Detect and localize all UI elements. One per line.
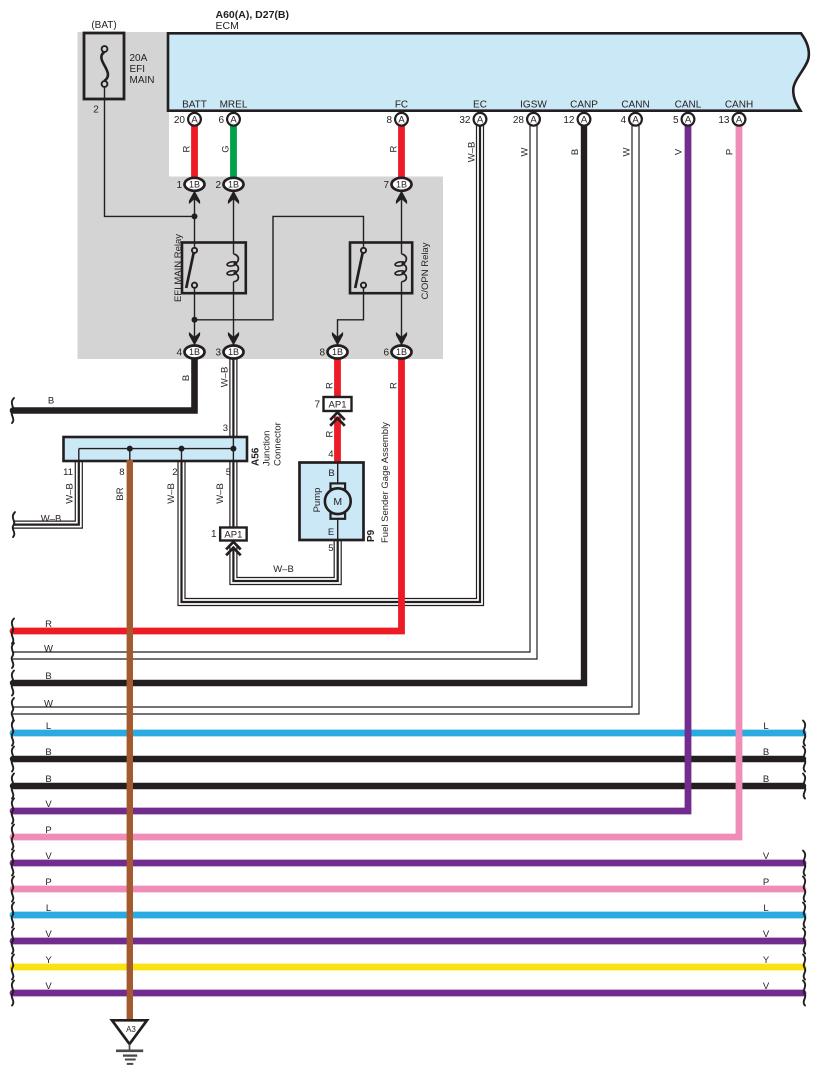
svg-text:V: V xyxy=(45,851,52,862)
torn end V row left xyxy=(12,981,14,1006)
svg-text:Pump: Pump xyxy=(312,488,323,513)
svg-text:A56: A56 xyxy=(251,447,262,466)
torn end P row right xyxy=(803,877,805,902)
svg-text:Fuel Sender Gage Assembly: Fuel Sender Gage Assembly xyxy=(380,422,391,543)
svg-text:A: A xyxy=(530,115,537,126)
svg-text:L: L xyxy=(46,721,51,732)
torn end B row right xyxy=(803,774,805,799)
node junction pin 8 xyxy=(127,446,133,452)
fuse element xyxy=(102,46,108,52)
svg-text:B: B xyxy=(48,396,54,407)
fuel pump P9 box xyxy=(300,463,364,541)
svg-text:B: B xyxy=(45,747,51,758)
torn end B row left xyxy=(12,671,14,696)
svg-text:R: R xyxy=(325,430,336,437)
connector 1B pin 6 bottom xyxy=(396,332,407,346)
svg-text:P: P xyxy=(45,825,51,836)
svg-text:11: 11 xyxy=(63,467,73,478)
svg-text:V: V xyxy=(763,929,770,940)
svg-text:A: A xyxy=(632,115,639,126)
svg-text:W: W xyxy=(520,147,531,156)
svg-text:FC: FC xyxy=(395,100,408,111)
svg-text:1B: 1B xyxy=(396,347,407,357)
svg-text:C/OPN Relay: C/OPN Relay xyxy=(420,242,431,299)
svg-text:A: A xyxy=(230,115,237,126)
connector 1B pin 1 top xyxy=(185,178,205,191)
wire MREL column through EFI relay coil xyxy=(233,199,235,254)
svg-text:AP1: AP1 xyxy=(224,530,242,541)
svg-text:A: A xyxy=(581,115,588,126)
svg-text:W–B: W–B xyxy=(273,564,294,575)
svg-text:A: A xyxy=(736,115,743,126)
wire R from AP1 7 to fuel pump pin 4 xyxy=(334,417,341,463)
wire W from ECM IGSW to left xyxy=(13,126,534,656)
connector 1B pin 4 bottom xyxy=(189,332,200,346)
svg-text:W–B: W–B xyxy=(215,483,226,504)
torn end L row left xyxy=(12,721,14,746)
relay block background xyxy=(78,32,444,359)
svg-text:2: 2 xyxy=(93,105,99,116)
svg-text:5: 5 xyxy=(328,543,333,554)
wire V row 3 xyxy=(13,938,803,945)
svg-text:EC: EC xyxy=(473,100,487,111)
svg-text:B: B xyxy=(763,774,769,785)
wire W-B junction pin 11 to left xyxy=(13,460,79,525)
wire R from 8 1B to AP1 connector 7 xyxy=(334,358,341,399)
svg-text:R: R xyxy=(45,619,52,630)
svg-text:W–B: W–B xyxy=(467,142,478,163)
wire B row 2 xyxy=(13,756,803,762)
svg-text:B: B xyxy=(763,747,769,758)
svg-text:W: W xyxy=(44,699,53,710)
wire C/OPN relay switch to 8 1B xyxy=(338,288,364,346)
wire B from 4 1B to left xyxy=(13,358,195,411)
svg-text:2: 2 xyxy=(172,467,177,478)
C/OPN relay coil xyxy=(402,254,407,263)
wire fuse to BATT node xyxy=(105,86,195,216)
svg-text:1B: 1B xyxy=(332,347,343,357)
svg-text:P9: P9 xyxy=(366,529,377,542)
svg-text:4: 4 xyxy=(620,115,626,126)
svg-text:R: R xyxy=(182,145,193,152)
wire L row xyxy=(13,730,803,737)
svg-text:4: 4 xyxy=(176,348,182,359)
svg-text:W–B: W–B xyxy=(220,367,231,388)
connector AP1 pin 7 xyxy=(324,397,352,411)
wire R from 6 1B to left row xyxy=(13,358,402,631)
wire B row 3 xyxy=(13,783,803,789)
svg-text:B: B xyxy=(45,671,51,682)
torn end B wire left xyxy=(12,398,14,423)
svg-text:AP1: AP1 xyxy=(329,400,347,411)
svg-text:3: 3 xyxy=(223,423,228,434)
wire W-B junction pin 2 to ECM EC xyxy=(182,126,481,602)
svg-text:8: 8 xyxy=(119,467,124,478)
torn end P row left xyxy=(12,825,14,850)
torn end V row left xyxy=(12,851,14,876)
svg-text:P: P xyxy=(763,877,769,888)
torn end R row left xyxy=(12,619,14,644)
svg-text:13: 13 xyxy=(718,115,730,126)
node BATT wire to relay xyxy=(192,213,198,219)
motor M of fuel pump xyxy=(331,483,346,489)
wire Y row xyxy=(13,964,803,971)
wire W-B from 3 1B to junction A56 pin 3 xyxy=(229,358,237,438)
wire FC column through C/OPN relay coil xyxy=(401,199,403,254)
wire V row 4 xyxy=(13,990,803,997)
svg-text:3: 3 xyxy=(215,348,221,359)
svg-text:CANH: CANH xyxy=(725,100,753,111)
svg-text:M: M xyxy=(333,496,342,508)
torn end L row right xyxy=(803,903,805,928)
svg-text:V: V xyxy=(45,799,52,810)
svg-text:A: A xyxy=(398,115,405,126)
svg-text:CANL: CANL xyxy=(675,100,702,111)
connector 1B pin 2 top xyxy=(224,178,244,191)
svg-text:B: B xyxy=(181,375,192,381)
torn end V row right xyxy=(803,929,805,954)
ground A3 xyxy=(112,1020,147,1044)
svg-text:R: R xyxy=(325,382,336,389)
svg-text:1B: 1B xyxy=(228,347,239,357)
svg-text:P: P xyxy=(725,149,736,155)
torn end B row left xyxy=(12,774,14,799)
svg-text:7: 7 xyxy=(314,400,320,411)
wire W from ECM CANN to left xyxy=(13,126,636,711)
connector 1B pin 7 top xyxy=(392,178,412,191)
svg-text:8: 8 xyxy=(386,115,392,126)
ECM A60(A) D27(B) box xyxy=(168,33,809,110)
wire EFI relay output to C/OPN relay switch xyxy=(195,216,364,319)
svg-text:Y: Y xyxy=(45,955,52,966)
node junction pin 2 xyxy=(179,446,185,452)
C/OPN relay switch xyxy=(361,248,366,253)
torn end Y row left xyxy=(12,955,14,980)
wire L row 2 xyxy=(13,912,803,919)
torn end L row right xyxy=(803,721,805,746)
torn end V row left xyxy=(12,929,14,954)
connector 1B pin 8 bottom xyxy=(332,332,343,346)
svg-text:4: 4 xyxy=(328,449,333,460)
svg-text:1: 1 xyxy=(176,180,182,191)
torn end W row left xyxy=(12,698,14,723)
EFI MAIN relay box xyxy=(182,243,246,294)
svg-text:A: A xyxy=(477,115,484,126)
svg-text:EFI: EFI xyxy=(130,64,146,75)
svg-text:B: B xyxy=(570,149,581,155)
svg-text:V: V xyxy=(763,851,770,862)
svg-text:G: G xyxy=(221,145,232,152)
torn end B row right xyxy=(803,747,805,772)
svg-text:L: L xyxy=(763,721,768,732)
svg-text:W: W xyxy=(44,644,53,655)
svg-text:1B: 1B xyxy=(189,180,200,190)
svg-text:(BAT): (BAT) xyxy=(91,20,116,31)
wire V row 2 xyxy=(13,860,803,867)
torn end V row left xyxy=(12,799,14,824)
C/OPN relay box xyxy=(350,243,412,294)
svg-text:V: V xyxy=(763,981,770,992)
svg-text:5: 5 xyxy=(226,467,231,478)
svg-text:1B: 1B xyxy=(228,180,239,190)
svg-text:EFI MAIN Relay: EFI MAIN Relay xyxy=(173,234,184,302)
svg-text:CANN: CANN xyxy=(621,100,649,111)
svg-text:B: B xyxy=(328,468,334,479)
svg-text:V: V xyxy=(674,148,685,155)
EFI relay coil xyxy=(234,254,239,263)
EFI relay switch xyxy=(192,248,197,253)
svg-text:W–B: W–B xyxy=(41,514,62,525)
torn end L row left xyxy=(12,903,14,928)
fuse 20A EFI MAIN xyxy=(84,33,124,99)
svg-text:CANP: CANP xyxy=(570,100,598,111)
torn end V row right xyxy=(803,851,805,876)
svg-text:8: 8 xyxy=(319,348,325,359)
svg-text:B: B xyxy=(45,774,51,785)
svg-text:W–B: W–B xyxy=(166,483,177,504)
torn end B row left xyxy=(12,747,14,772)
svg-text:2: 2 xyxy=(215,180,221,191)
svg-text:6: 6 xyxy=(218,115,224,126)
svg-text:L: L xyxy=(763,903,768,914)
junction connector A56 xyxy=(64,437,248,461)
svg-text:Junction: Junction xyxy=(262,431,273,466)
svg-text:20: 20 xyxy=(174,115,186,126)
connector AP1 pin 1 xyxy=(220,528,247,541)
svg-text:A3: A3 xyxy=(126,1025,136,1034)
torn end Y row right xyxy=(803,955,805,980)
torn end V row right xyxy=(803,981,805,1006)
svg-text:Y: Y xyxy=(763,955,770,966)
svg-text:1B: 1B xyxy=(396,180,407,190)
wire BATT column through EFI relay switch xyxy=(194,199,196,247)
node junction pin 5 xyxy=(230,446,236,452)
svg-text:W: W xyxy=(622,147,633,156)
svg-text:E: E xyxy=(328,527,334,538)
svg-text:IGSW: IGSW xyxy=(520,100,547,111)
svg-text:28: 28 xyxy=(513,115,525,126)
svg-text:7: 7 xyxy=(383,180,389,191)
torn end W row left xyxy=(12,643,14,668)
wire BR from junction pin 8 to ground A3 xyxy=(127,460,133,1020)
wire R ECM BATT xyxy=(191,126,198,178)
svg-text:BR: BR xyxy=(115,487,126,500)
wire W-B AP1 to fuel pump pin 5 xyxy=(233,539,337,581)
wire V from ECM CANL to left row xyxy=(13,126,688,811)
svg-text:5: 5 xyxy=(673,115,679,126)
svg-text:A: A xyxy=(191,115,198,126)
svg-text:1: 1 xyxy=(211,529,217,540)
svg-text:MREL: MREL xyxy=(220,100,248,111)
svg-text:P: P xyxy=(45,877,51,888)
svg-text:1B: 1B xyxy=(189,347,200,357)
svg-text:32: 32 xyxy=(459,115,471,126)
svg-text:R: R xyxy=(389,145,400,152)
svg-text:20A: 20A xyxy=(130,53,148,64)
wire P from ECM CANH to left row xyxy=(13,126,739,837)
svg-text:ECM: ECM xyxy=(216,20,239,32)
svg-text:A: A xyxy=(685,115,692,126)
wire G ECM MREL xyxy=(230,126,237,178)
wire B row from ECM CANP to left xyxy=(13,126,584,683)
svg-text:BATT: BATT xyxy=(182,100,207,111)
node EFI relay output xyxy=(192,317,198,323)
svg-text:R: R xyxy=(389,382,400,389)
svg-text:L: L xyxy=(46,903,51,914)
wire R ECM FC xyxy=(398,126,405,178)
svg-text:MAIN: MAIN xyxy=(130,75,155,86)
svg-text:6: 6 xyxy=(383,348,389,359)
svg-text:W–B: W–B xyxy=(65,483,76,504)
svg-text:Connector: Connector xyxy=(273,422,284,466)
torn end P row left xyxy=(12,877,14,902)
svg-text:12: 12 xyxy=(563,115,575,126)
svg-text:V: V xyxy=(45,981,52,992)
svg-text:V: V xyxy=(45,929,52,940)
wire P row 2 xyxy=(13,886,803,893)
torn end W-B pin 11 wire left xyxy=(13,512,15,537)
connector 1B pin 3 bottom xyxy=(228,332,239,346)
wire W-B junction pin 5 to AP1 xyxy=(229,460,237,528)
